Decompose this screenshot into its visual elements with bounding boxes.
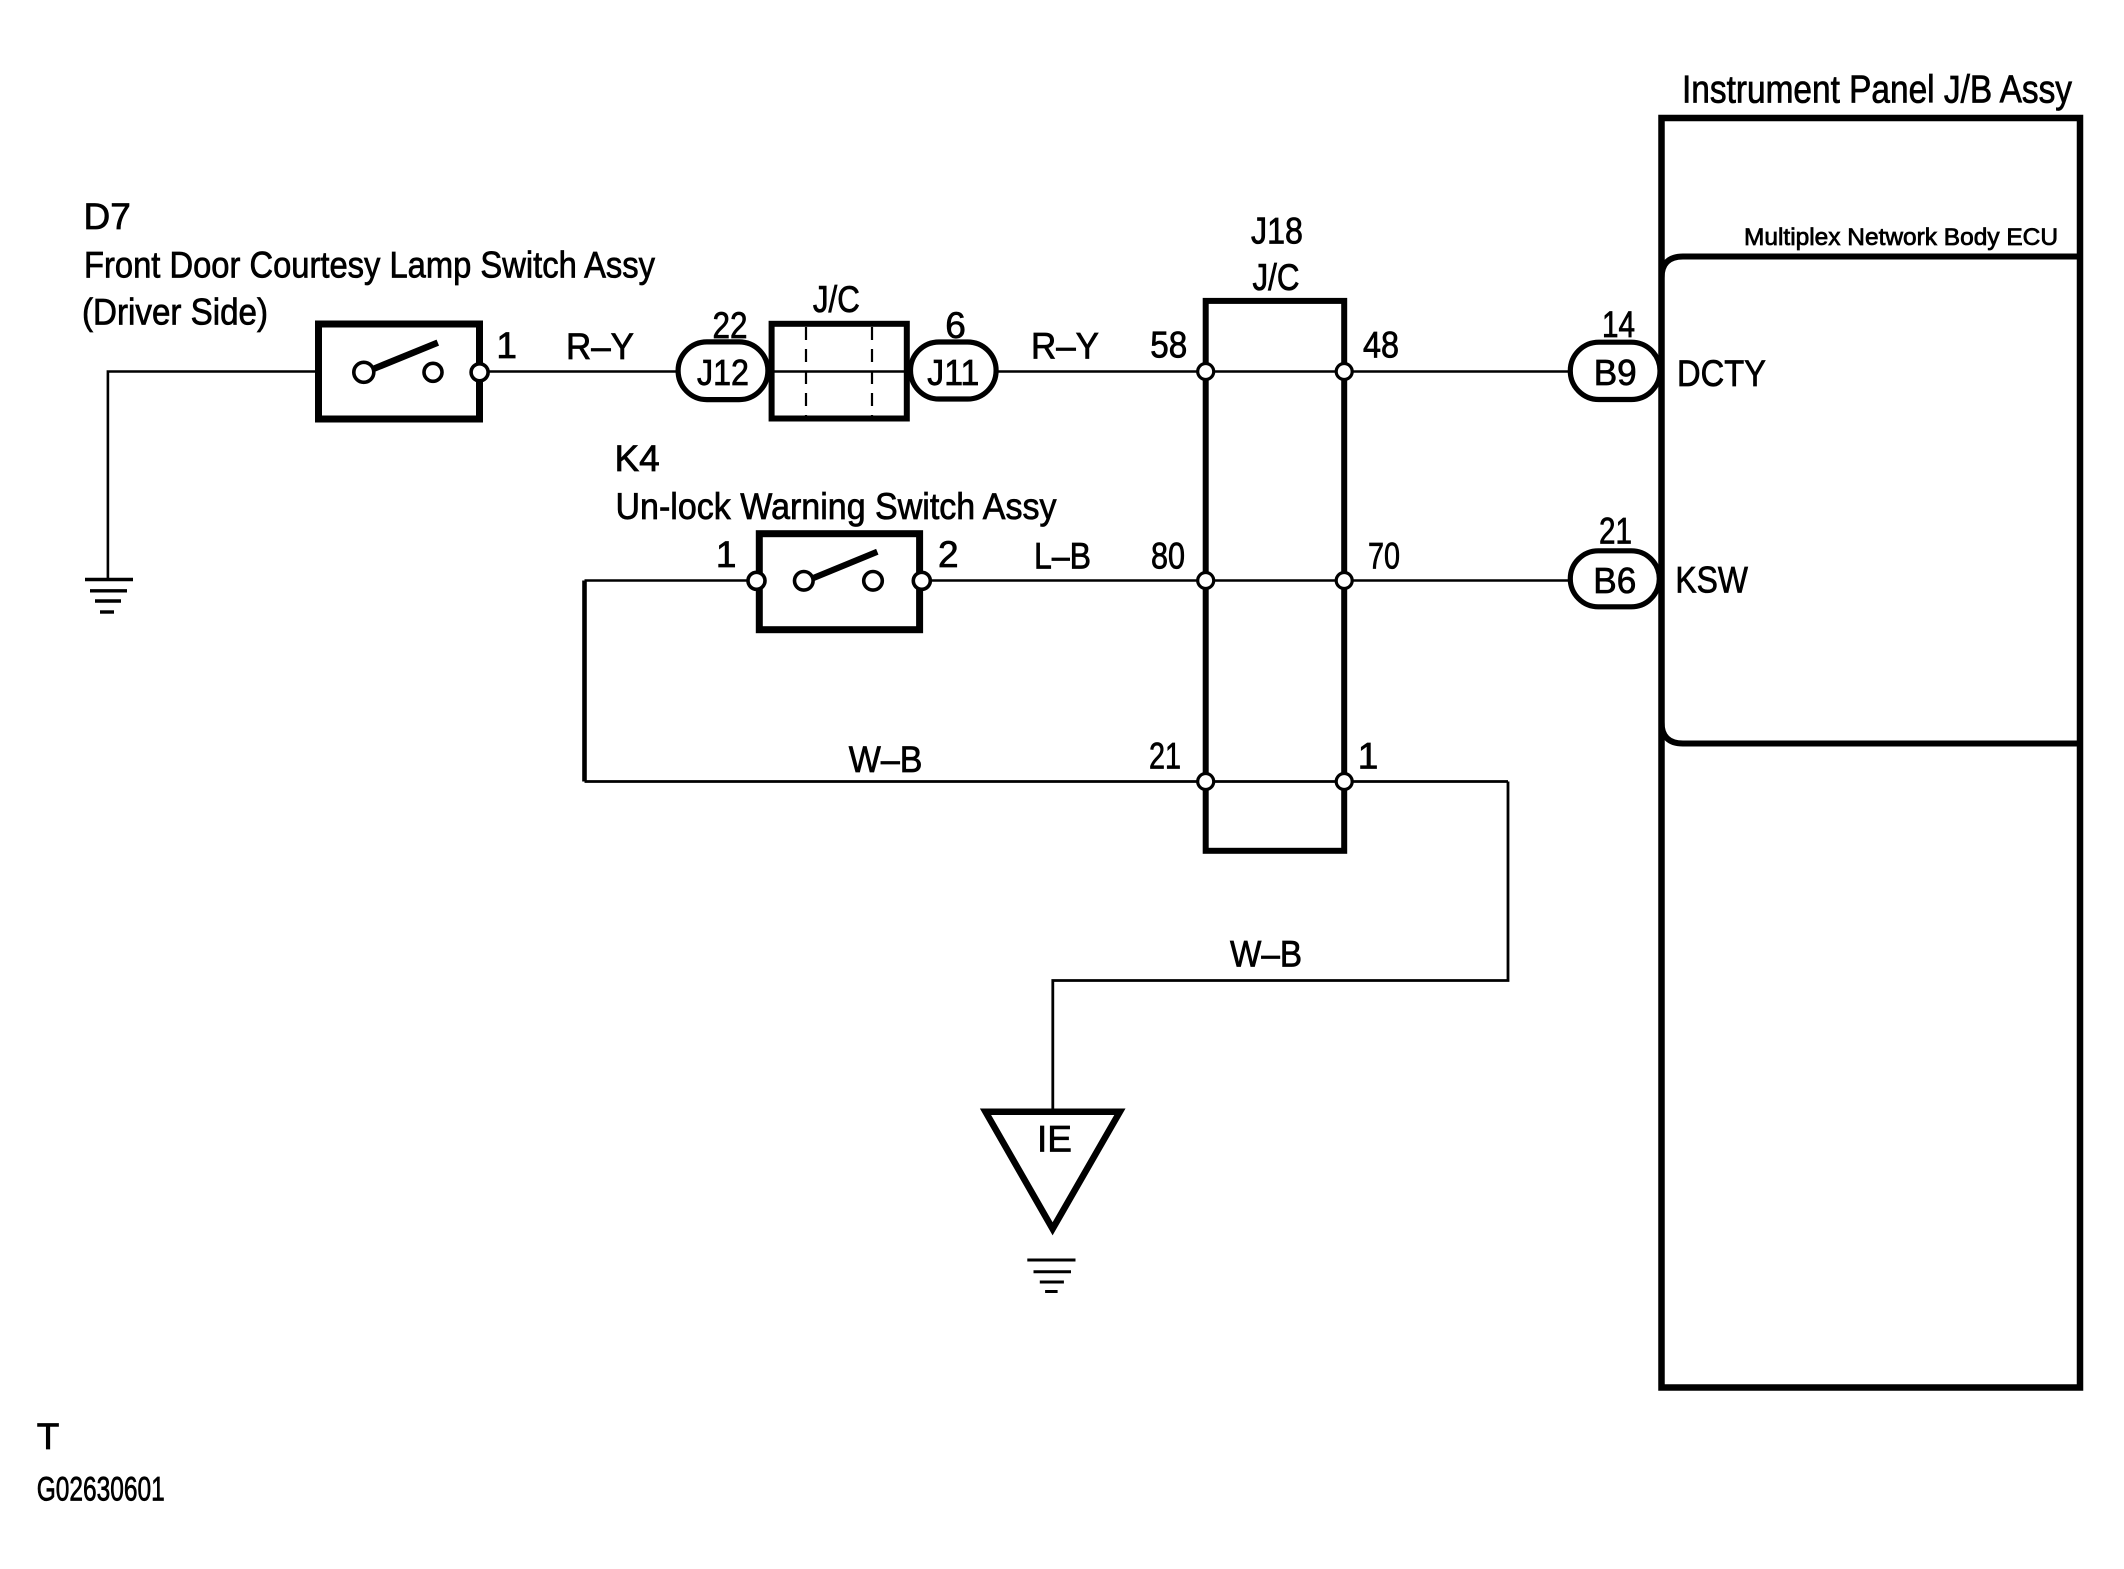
svg-text:2: 2 <box>938 534 959 575</box>
svg-text:80: 80 <box>1151 536 1185 577</box>
svg-text:G02630601: G02630601 <box>37 1471 165 1509</box>
svg-text:1: 1 <box>1358 736 1379 777</box>
svg-text:W–B: W–B <box>1230 934 1302 975</box>
svg-text:J/C: J/C <box>1253 257 1300 298</box>
svg-text:14: 14 <box>1602 304 1635 345</box>
svg-text:58: 58 <box>1150 325 1187 366</box>
svg-text:R–Y: R–Y <box>566 326 634 367</box>
svg-text:B9: B9 <box>1594 352 1637 393</box>
svg-text:IE: IE <box>1037 1119 1072 1160</box>
svg-text:Instrument Panel J/B Assy: Instrument Panel J/B Assy <box>1682 69 2072 112</box>
svg-text:J18: J18 <box>1251 210 1303 251</box>
svg-text:Un-lock Warning Switch Assy: Un-lock Warning Switch Assy <box>616 486 1057 527</box>
svg-text:J12: J12 <box>697 352 749 393</box>
svg-text:Front Door Courtesy Lamp Switc: Front Door Courtesy Lamp Switch Assy <box>84 245 655 286</box>
svg-text:1: 1 <box>716 534 737 575</box>
svg-text:48: 48 <box>1363 325 1399 366</box>
svg-text:L–B: L–B <box>1034 536 1091 577</box>
svg-text:KSW: KSW <box>1675 559 1748 600</box>
svg-text:21: 21 <box>1599 511 1632 552</box>
svg-text:W–B: W–B <box>849 739 923 780</box>
svg-text:T: T <box>37 1416 60 1457</box>
svg-text:D7: D7 <box>84 196 131 237</box>
svg-text:6: 6 <box>945 305 966 346</box>
svg-text:1: 1 <box>496 325 517 366</box>
svg-text:J11: J11 <box>927 352 979 393</box>
svg-text:J/C: J/C <box>813 279 860 320</box>
svg-text:70: 70 <box>1368 536 1400 577</box>
svg-text:R–Y: R–Y <box>1031 326 1099 367</box>
svg-text:21: 21 <box>1149 736 1181 777</box>
svg-text:K4: K4 <box>615 438 660 479</box>
svg-text:(Driver Side): (Driver Side) <box>82 292 268 333</box>
svg-text:DCTY: DCTY <box>1677 353 1766 394</box>
svg-text:B6: B6 <box>1593 560 1636 601</box>
svg-text:22: 22 <box>713 305 748 346</box>
svg-text:Multiplex Network Body ECU: Multiplex Network Body ECU <box>1744 224 2058 251</box>
